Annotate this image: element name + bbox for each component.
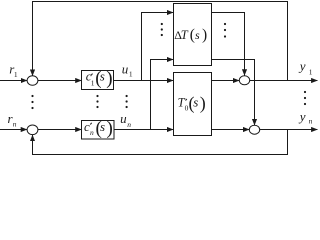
wire arrow into summer n from bottom [32, 135, 34, 140]
wire bottom feedback line [33, 130, 288, 155]
svg-text:s: s [193, 95, 198, 110]
summer Sn left [27, 125, 38, 135]
svg-text:): ) [106, 68, 112, 89]
dots left between summers [31, 95, 33, 97]
svg-text:y: y [298, 109, 306, 124]
dots between u labels [126, 95, 128, 97]
svg-text:1: 1 [129, 69, 133, 78]
svg-text:n: n [127, 120, 131, 129]
svg-text:n: n [90, 128, 94, 137]
svg-text:1: 1 [91, 79, 95, 88]
dots between c blocks [96, 95, 98, 97]
svg-text:): ) [202, 27, 207, 44]
svg-text:): ) [200, 93, 206, 114]
svg-text:1: 1 [14, 70, 18, 79]
block DeltaT(s) [174, 4, 212, 66]
wire un line cn to T0 [114, 129, 173, 131]
dots left of DeltaT [161, 23, 163, 25]
summer S1 left [27, 76, 38, 86]
summer S1 right [239, 76, 249, 85]
svg-text:1: 1 [309, 68, 313, 77]
wire DeltaT output n down into right summer n [212, 60, 255, 122]
wire yn output [260, 129, 318, 131]
wire u1 tap up to DeltaT input 1 [142, 13, 174, 81]
svg-text:u: u [122, 61, 129, 76]
svg-text:n: n [13, 119, 17, 128]
wire DeltaT output 1 down into right summer 1 [212, 13, 245, 73]
wire y1 output [250, 80, 318, 82]
wire u1 line c1 to T0 [114, 80, 174, 82]
block c1(s) [82, 71, 114, 90]
block cn(s) [82, 121, 115, 140]
svg-text:s: s [100, 69, 105, 84]
svg-text:n: n [309, 117, 313, 126]
svg-text:T: T [181, 28, 189, 42]
wire un tap up to DeltaT input n [151, 60, 174, 130]
summer Sn right [249, 125, 259, 134]
svg-text:s: s [195, 28, 200, 42]
block T0(s) [174, 73, 212, 136]
svg-text:): ) [107, 118, 113, 139]
wire rn input [0, 129, 27, 131]
wire top feedback line [33, 2, 288, 81]
wire summern to cn [38, 129, 82, 131]
wire arrow into summer 1 from top [32, 70, 34, 76]
wire T0 output 1 to right summer 1 [212, 80, 240, 82]
dots right of DeltaT [224, 23, 226, 25]
wire summer1 to c1 [38, 80, 82, 82]
wire r1 input [0, 80, 27, 82]
svg-text:y: y [298, 59, 306, 74]
svg-text:u: u [120, 111, 127, 126]
svg-text:s: s [100, 119, 105, 134]
wire T0 output n to right summer n [212, 129, 250, 131]
dots between y labels [304, 91, 306, 93]
